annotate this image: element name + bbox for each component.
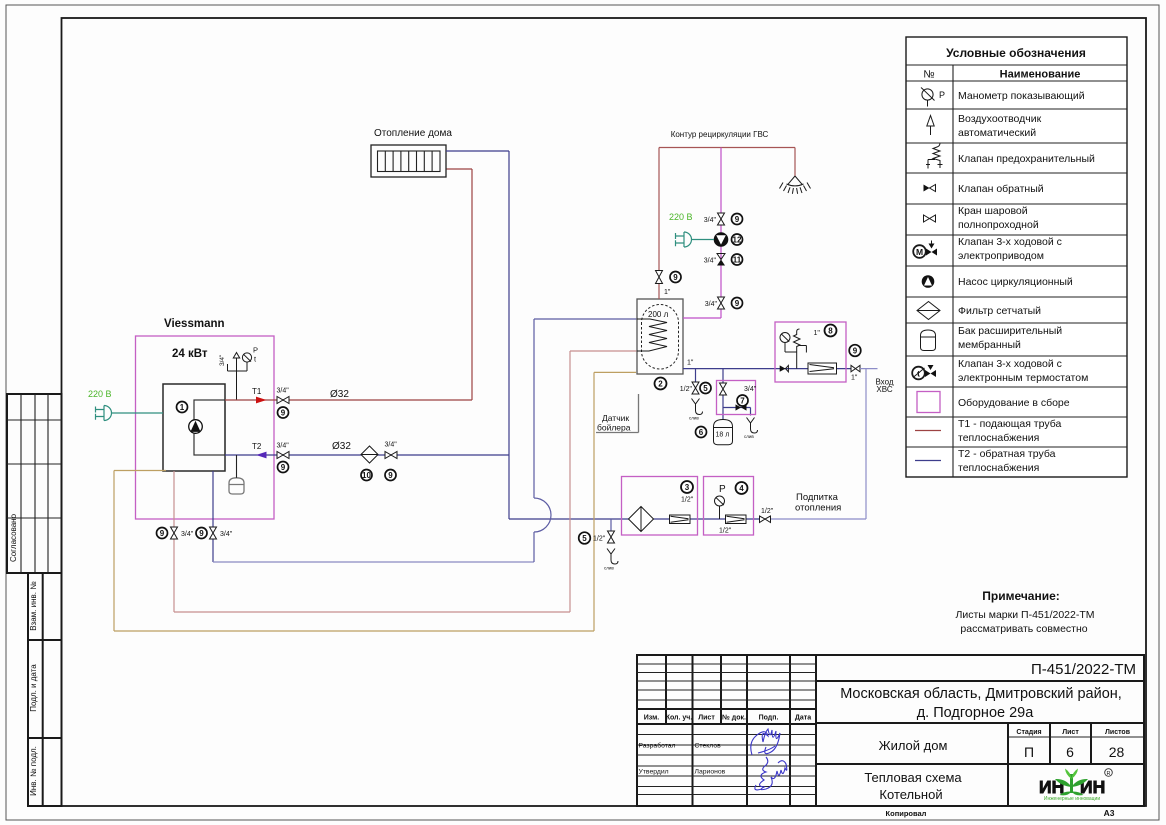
group8 gauge xyxy=(780,333,797,353)
svg-text:Манометр показывающий: Манометр показывающий xyxy=(958,90,1085,102)
svg-text:Условные обозначения: Условные обозначения xyxy=(946,46,1086,60)
group4 gauge xyxy=(715,496,725,519)
DHW tank capsule (dashed) xyxy=(642,305,679,370)
svg-text:слив: слив xyxy=(744,434,754,439)
svg-text:P: P xyxy=(253,346,258,355)
recirc valve top 3/4 xyxy=(704,213,725,225)
T1 valve 3/4 xyxy=(277,388,290,404)
legend row2 воздухоотводчик symbol xyxy=(927,116,934,136)
svg-text:9: 9 xyxy=(853,347,858,356)
svg-text:11: 11 xyxy=(733,256,742,265)
svg-text:5: 5 xyxy=(582,534,587,543)
legend row4 клапан обратный symbol xyxy=(924,185,936,192)
svg-text:Бак расширительный: Бак расширительный xyxy=(958,325,1062,337)
svg-text:теплоснабжения: теплоснабжения xyxy=(958,432,1039,444)
svg-text:1/2": 1/2" xyxy=(593,536,606,543)
svg-text:Воздухоотводчик: Воздухоотводчик xyxy=(958,113,1042,125)
svg-text:1": 1" xyxy=(687,360,694,367)
recirc valve bottom 3/4 xyxy=(705,297,725,309)
T2 valve2 tag 9 xyxy=(385,470,396,481)
svg-text:5: 5 xyxy=(703,384,708,393)
svg-text:7: 7 xyxy=(740,397,745,406)
make-up riser pipe xyxy=(771,369,867,519)
svg-text:Р: Р xyxy=(939,90,945,100)
tank drain branch xyxy=(695,369,697,382)
svg-text:рассматривать совместно: рассматривать совместно xyxy=(960,623,1087,635)
boiler safety group: air vent xyxy=(228,353,248,401)
legend row13 Т2 line sample xyxy=(915,460,941,462)
svg-text:R: R xyxy=(1107,771,1111,777)
svg-text:T1: T1 xyxy=(252,387,262,396)
logo ИНЖИН xyxy=(1039,769,1112,803)
expansion tank group box 7 xyxy=(717,381,756,415)
svg-text:Клапан 3-х ходовой с: Клапан 3-х ходовой с xyxy=(958,358,1062,370)
legend row10 клапан 3-х ходовой с термостатом symbol xyxy=(912,365,936,379)
svg-text:Клапан обратный: Клапан обратный xyxy=(958,183,1044,195)
left frame column table (Взам.инв / Подл.и дата / Инв.№подл.) xyxy=(28,573,62,806)
svg-text:3/4": 3/4" xyxy=(744,386,757,393)
legend table grid xyxy=(906,37,1127,477)
svg-text:6: 6 xyxy=(1066,744,1074,760)
T2 valve2 3/4 xyxy=(385,442,398,459)
svg-text:Листов: Листов xyxy=(1105,729,1131,736)
group3 tag 3 xyxy=(681,481,693,493)
cold water group box 8 xyxy=(775,322,846,382)
svg-text:9: 9 xyxy=(735,299,740,308)
boiler sensor label box xyxy=(596,394,639,433)
wire 220V to boiler xyxy=(112,412,164,414)
svg-text:Московская область, Дмитровски: Московская область, Дмитровский район, xyxy=(840,686,1122,702)
svg-text:электронным термостатом: электронным термостатом xyxy=(958,372,1088,384)
cold water inlet stub xyxy=(860,368,878,370)
svg-text:Тепловая схема: Тепловая схема xyxy=(864,770,962,785)
tank coil xyxy=(637,319,667,351)
svg-text:П: П xyxy=(1024,744,1034,760)
svg-text:220 В: 220 В xyxy=(88,389,112,399)
group4 tag 4 xyxy=(736,482,748,494)
svg-text:Лист: Лист xyxy=(698,715,715,722)
T2 strainer xyxy=(361,446,378,463)
tank drain funnel xyxy=(689,399,703,421)
T1 flow arrow xyxy=(256,397,267,404)
boiler DHW return pipe (blue) from tank coil xyxy=(212,471,214,562)
svg-text:Утвердил: Утвердил xyxy=(639,769,669,776)
svg-text:теплоснабжения: теплоснабжения xyxy=(958,462,1039,474)
check valve tag 11 xyxy=(732,254,743,265)
tank outlet valve tag 9 xyxy=(670,272,681,283)
T2 valve tag 9 xyxy=(278,462,289,473)
recirc valve top tag 9 xyxy=(732,214,743,225)
svg-text:3/4": 3/4" xyxy=(704,258,717,265)
svg-text:T2: T2 xyxy=(252,442,262,451)
boiler drain valve right tag 9 xyxy=(196,528,207,539)
svg-text:200 л: 200 л xyxy=(648,310,669,319)
legend row7 насос symbol xyxy=(922,275,935,288)
svg-text:Стадия: Стадия xyxy=(1016,729,1041,736)
svg-text:18 л: 18 л xyxy=(716,432,730,439)
recirculation pump tag 12 xyxy=(732,234,743,245)
svg-text:Дата: Дата xyxy=(795,715,811,722)
svg-text:3: 3 xyxy=(685,483,690,492)
svg-text:№ док.: № док. xyxy=(722,714,746,722)
svg-text:Подпитка: Подпитка xyxy=(796,492,839,503)
tank drain valve tag 5 xyxy=(700,383,711,394)
boiler assembly magenta box xyxy=(136,336,275,519)
boiler drain valve left 3/4 xyxy=(171,527,194,539)
group3 reducer xyxy=(670,515,691,524)
220V plug left xyxy=(96,406,112,421)
svg-text:1": 1" xyxy=(664,289,671,296)
svg-text:Клапан 3-х ходовой с: Клапан 3-х ходовой с xyxy=(958,236,1062,248)
svg-text:Ø32: Ø32 xyxy=(332,441,351,452)
boiler gauge xyxy=(242,346,258,372)
svg-text:24 кВт: 24 кВт xyxy=(172,348,208,360)
make-up filter group box 3 xyxy=(622,477,698,536)
group8 pressure reducer xyxy=(808,363,837,374)
svg-text:12: 12 xyxy=(733,236,742,245)
make-up drain funnel xyxy=(604,549,618,571)
node 1 circle xyxy=(177,402,188,413)
header labels Изм..Дата xyxy=(644,714,811,722)
make-up drain valve 1/2 xyxy=(593,531,615,543)
svg-text:9: 9 xyxy=(281,463,286,472)
svg-text:3/4": 3/4" xyxy=(219,354,226,366)
legend row11 оборудование в сборе symbol xyxy=(917,392,940,413)
svg-text:4: 4 xyxy=(739,484,744,493)
title block main verticals xyxy=(693,655,817,806)
svg-text:Изм.: Изм. xyxy=(644,715,660,722)
svg-text:1/2": 1/2" xyxy=(680,386,693,393)
make-up drain branch xyxy=(610,519,612,531)
cold water main pipe xyxy=(683,368,851,370)
svg-text:Копировал: Копировал xyxy=(886,809,927,818)
svg-text:10: 10 xyxy=(362,471,371,480)
svg-text:3/4": 3/4" xyxy=(704,217,717,224)
make-up label xyxy=(795,492,841,514)
recirculation magenta pipe xyxy=(683,148,721,319)
svg-text:Кран шаровой: Кран шаровой xyxy=(958,205,1028,217)
make-up valve 1/2 xyxy=(760,508,774,523)
svg-text:9: 9 xyxy=(388,471,393,480)
svg-text:Инв. № подл.: Инв. № подл. xyxy=(29,746,38,796)
inlet label xyxy=(875,378,893,395)
recirc check valve 11 xyxy=(704,254,725,266)
svg-text:3/4": 3/4" xyxy=(385,442,398,449)
title block outer frame xyxy=(637,655,1144,806)
inlet valve tag 9 xyxy=(849,345,861,357)
svg-text:мембранный: мембранный xyxy=(958,339,1021,351)
svg-text:28: 28 xyxy=(1109,744,1125,760)
tank outlet valve 1" xyxy=(656,271,671,297)
svg-text:Насос циркуляционный: Насос циркуляционный xyxy=(958,276,1073,288)
group8 safety valve xyxy=(794,329,807,369)
expansion branch valve 3/4 xyxy=(720,383,757,395)
expansion drain check valve xyxy=(736,404,747,410)
DHW tank body xyxy=(637,299,683,374)
boiler pump xyxy=(189,420,203,434)
svg-text:электроприводом: электроприводом xyxy=(958,250,1044,262)
svg-text:8: 8 xyxy=(828,327,833,336)
tank DHW outlet pipe xyxy=(659,148,795,300)
boiler sensor cable (tan) xyxy=(114,372,636,631)
svg-text:6: 6 xyxy=(699,428,704,437)
stadia headers xyxy=(1016,729,1130,736)
svg-text:1": 1" xyxy=(814,330,821,337)
svg-text:Viessmann: Viessmann xyxy=(164,318,225,330)
svg-text:Оборудование в сборе: Оборудование в сборе xyxy=(958,397,1070,409)
svg-text:9: 9 xyxy=(160,529,165,538)
svg-text:автоматический: автоматический xyxy=(958,127,1036,139)
tank tag 2 xyxy=(655,378,667,390)
svg-text:Котельной: Котельной xyxy=(879,787,942,802)
svg-text:2: 2 xyxy=(658,380,663,389)
svg-text:бойлера: бойлера xyxy=(597,423,631,433)
svg-text:ХВС: ХВС xyxy=(876,385,892,394)
svg-text:1/2": 1/2" xyxy=(761,508,774,515)
svg-text:Примечание:: Примечание: xyxy=(982,589,1060,603)
recirc valve bottom tag 9 xyxy=(732,298,743,309)
group8 check valve xyxy=(780,365,789,371)
svg-text:Кол. уч.: Кол. уч. xyxy=(666,715,693,722)
svg-text:слив: слив xyxy=(604,566,614,571)
make-up gauge group box 4 xyxy=(704,477,754,536)
svg-text:Ø32: Ø32 xyxy=(330,389,349,400)
svg-text:Разработал: Разработал xyxy=(639,742,676,750)
T1 valve tag 9 xyxy=(278,407,289,418)
svg-text:Р: Р xyxy=(719,484,726,495)
220V plug top xyxy=(676,232,715,247)
radiator return pipe to make-up line xyxy=(446,151,759,519)
svg-text:3/4": 3/4" xyxy=(181,531,194,538)
svg-text:д. Подгорное 29а: д. Подгорное 29а xyxy=(917,705,1035,721)
title block header band xyxy=(637,709,816,724)
svg-text:1/2": 1/2" xyxy=(681,497,694,504)
svg-text:9: 9 xyxy=(735,215,740,224)
svg-text:Стеклов: Стеклов xyxy=(695,743,722,750)
legend row8 фильтр symbol xyxy=(917,302,940,320)
expansion tank branch xyxy=(723,369,751,420)
recirculation pump xyxy=(714,233,728,247)
radiator body xyxy=(371,145,446,177)
tank drain valve 1/2 xyxy=(680,382,699,394)
boiler DHW supply pipe (salmon) to tank coil xyxy=(174,351,637,612)
svg-text:Ларионов: Ларионов xyxy=(695,769,726,776)
svg-text:Лист: Лист xyxy=(1062,729,1079,736)
T2 valve 3/4 xyxy=(277,443,290,459)
svg-text:№: № xyxy=(923,69,934,81)
svg-text:1/2": 1/2" xyxy=(719,528,732,535)
svg-text:полнопроходной: полнопроходной xyxy=(958,219,1039,231)
T2 flow arrow xyxy=(256,452,267,459)
legend row9 бак расширительный symbol xyxy=(921,330,936,351)
boiler hydro block inner rect xyxy=(194,400,225,455)
T1 supply pipe boiler to radiator xyxy=(225,169,472,400)
svg-text:Т2 - обратная труба: Т2 - обратная труба xyxy=(958,448,1056,460)
title block thin rows upper xyxy=(637,664,816,700)
svg-text:3/4": 3/4" xyxy=(277,443,290,450)
expansion drain funnel xyxy=(744,418,758,440)
svg-text:П-451/2022-ТМ: П-451/2022-ТМ xyxy=(1031,661,1136,678)
svg-text:Контур рециркуляции ГВС: Контур рециркуляции ГВС xyxy=(671,130,769,139)
title block thin rows lower xyxy=(637,735,816,795)
boiler drain valve right 3/4 xyxy=(210,527,233,539)
svg-text:Отопление дома: Отопление дома xyxy=(374,128,452,139)
stadia values xyxy=(1024,744,1125,760)
stadia columns xyxy=(1008,723,1091,806)
svg-text:Подп.: Подп. xyxy=(759,715,779,722)
svg-text:9: 9 xyxy=(673,273,678,282)
svg-text:Взам. инв. №: Взам. инв. № xyxy=(29,581,38,631)
legend row1 манометр symbol xyxy=(921,88,945,107)
signature scribble 2 xyxy=(755,757,787,790)
boiler expansion vessel xyxy=(229,455,244,494)
svg-text:слив: слив xyxy=(689,416,699,421)
boiler drain valve left tag 9 xyxy=(157,528,168,539)
svg-text:1": 1" xyxy=(851,375,858,382)
legend row6 клапан 3-х ходовой с электроприводом symbol xyxy=(913,241,937,258)
svg-text:Датчик: Датчик xyxy=(602,413,629,423)
svg-text:отопления: отопления xyxy=(795,503,841,514)
make-up filter xyxy=(629,507,654,532)
svg-text:1: 1 xyxy=(180,403,185,412)
group8 tag 8 xyxy=(825,325,837,337)
svg-text:Жилой дом: Жилой дом xyxy=(879,738,948,753)
shower head xyxy=(780,176,811,194)
expansion tank 18л xyxy=(714,420,733,445)
svg-text:Фильтр сетчатый: Фильтр сетчатый xyxy=(958,305,1041,317)
svg-text:Наименование: Наименование xyxy=(1000,69,1081,81)
svg-text:Листы марки П-451/2022-ТМ: Листы марки П-451/2022-ТМ xyxy=(955,609,1094,621)
svg-text:3/4": 3/4" xyxy=(220,531,233,538)
svg-text:3/4": 3/4" xyxy=(705,301,718,308)
title block right horizontals xyxy=(816,681,1144,764)
strainer tag 10 xyxy=(361,470,372,481)
legend row5 кран шаровой symbol xyxy=(924,215,936,222)
svg-text:Клапан предохранительный: Клапан предохранительный xyxy=(958,153,1095,165)
boiler body xyxy=(163,384,225,471)
svg-text:9: 9 xyxy=(199,529,204,538)
svg-text:Инженерные инновации: Инженерные инновации xyxy=(1044,796,1100,802)
make-up drain tag 5 xyxy=(579,532,591,544)
svg-text:Подл. и дата: Подл. и дата xyxy=(29,664,38,712)
svg-text:3/4": 3/4" xyxy=(277,388,290,395)
legend row12 Т1 line sample xyxy=(915,430,941,432)
left approval mini-table (Согласовано) xyxy=(7,394,62,573)
expansion branch tag 7 xyxy=(737,395,748,406)
svg-text:А3: А3 xyxy=(1104,808,1115,818)
title block upper-only verticals xyxy=(666,655,721,724)
legend row3 клапан предохранительный symbol xyxy=(926,143,943,169)
svg-text:9: 9 xyxy=(281,409,286,418)
signature scribble 1 xyxy=(751,729,780,755)
expansion tank tag 6 xyxy=(696,427,707,438)
svg-text:М: М xyxy=(916,247,923,257)
svg-text:Согласовано: Согласовано xyxy=(9,513,18,562)
cold water inlet valve 1" xyxy=(851,365,860,381)
svg-text:Т1 - подающая труба: Т1 - подающая труба xyxy=(958,418,1061,430)
svg-text:220 В: 220 В xyxy=(669,212,693,222)
group4 reducer xyxy=(726,515,747,524)
T2 return pipe xyxy=(225,454,509,456)
